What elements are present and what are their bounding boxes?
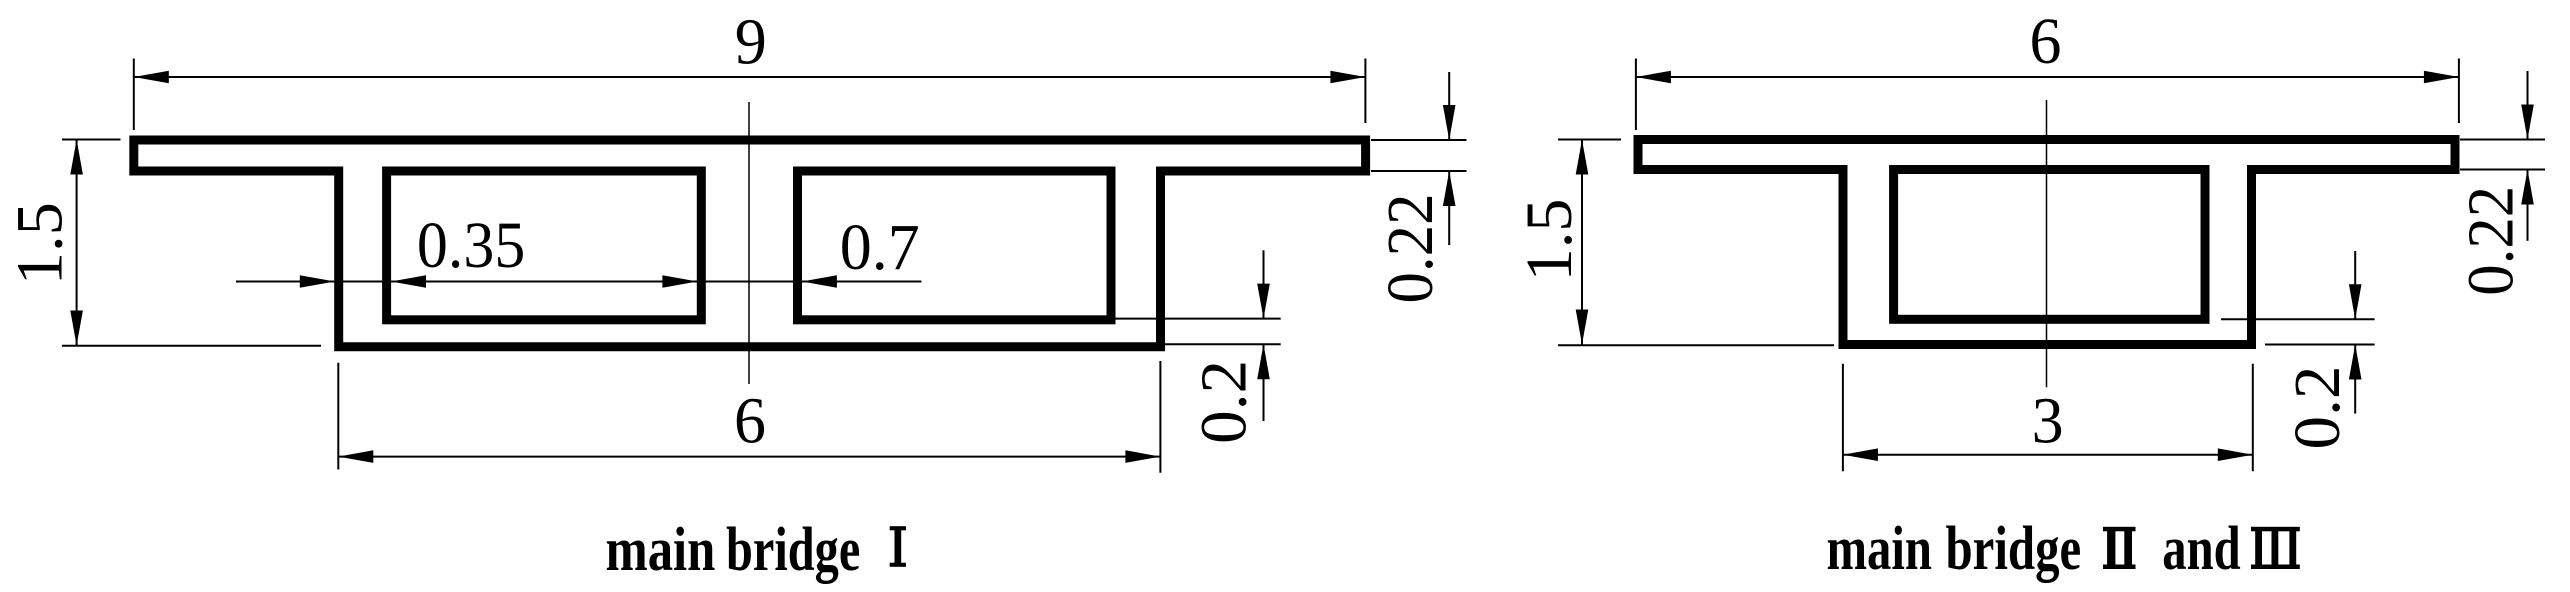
- svg-text:and: and: [2162, 515, 2240, 583]
- dim 1.5 line: [76, 140, 78, 346]
- svg-text:1.5: 1.5: [1513, 199, 1586, 282]
- roman numeral II: [2103, 527, 2136, 569]
- right cell: [1894, 170, 2205, 320]
- dim 0.35 / 0.7 arrows: [300, 275, 837, 288]
- dim 0.22 left vline lower: [1448, 171, 1450, 245]
- dim 1.5 right arrows: [1576, 140, 1589, 345]
- left cell 2: [798, 171, 1112, 320]
- svg-text:3: 3: [2032, 385, 2064, 458]
- dim 9 line: [134, 76, 1366, 78]
- dim 9 arrows: [134, 71, 1366, 84]
- svg-text:9: 9: [735, 6, 767, 79]
- dim 3 ext right: [2252, 364, 2254, 472]
- dim 6 ext left: [337, 363, 339, 470]
- svg-text:0.35: 0.35: [417, 209, 525, 282]
- svg-text:1.5: 1.5: [3, 202, 76, 285]
- dim 1.5 right line: [1581, 140, 1583, 345]
- dim 6 ext right: [1159, 361, 1161, 473]
- right section outline: [1638, 140, 2455, 345]
- dim 0.22 right arrows: [2521, 105, 2534, 205]
- dim 0.2 right arrows: [2349, 284, 2362, 379]
- dim 6 right ext right: [2458, 59, 2460, 124]
- left centerline: [748, 102, 750, 384]
- left cell 1: [387, 171, 702, 320]
- dim 0.2 right vlines: [2354, 251, 2356, 319]
- right centerline: [2046, 100, 2048, 387]
- roman numeral III: [2251, 527, 2300, 569]
- dim 9 ext left: [133, 59, 135, 131]
- svg-text:0.22: 0.22: [1374, 194, 1447, 304]
- svg-text:6: 6: [2030, 5, 2062, 78]
- dim 6 bottom line: [338, 456, 1160, 458]
- dim 3 line: [1843, 454, 2253, 456]
- dim 1.5 right ext top: [1558, 139, 1621, 141]
- dim 0.35 / 0.7 line: [236, 281, 921, 283]
- svg-text:bridge: bridge: [1946, 515, 2082, 583]
- dim 6 arrows: [338, 450, 1160, 463]
- dim 0.22 left vline upper: [1448, 72, 1450, 140]
- dim 1.5 arrows: [70, 140, 83, 346]
- svg-text:0.2: 0.2: [1188, 360, 1261, 444]
- dim 0.22 left exts: [1371, 139, 1467, 141]
- svg-text:6: 6: [734, 385, 766, 458]
- dim 0.2 right exts: [2221, 318, 2375, 320]
- dim 1.5 ext bottom: [62, 345, 321, 347]
- svg-text:main: main: [606, 516, 716, 584]
- dim 3 arrows: [1843, 448, 2253, 461]
- roman numeral I: [890, 526, 906, 567]
- svg-text:main: main: [1827, 515, 1933, 583]
- dim 6 right ext left: [1635, 59, 1637, 131]
- svg-text:bridge: bridge: [726, 516, 860, 584]
- dim 6 top line right: [1636, 76, 2459, 78]
- svg-text:0.2: 0.2: [2281, 366, 2354, 450]
- dim 9 ext right: [1364, 59, 1366, 124]
- dim 0.22 right exts: [2460, 139, 2545, 141]
- dim 0.2 left vlines: [1263, 250, 1265, 318]
- dim 0.2 left exts: [1115, 318, 1281, 320]
- dim 6 right arrows: [1636, 71, 2459, 84]
- dim 0.2 left arrows: [1257, 284, 1270, 380]
- svg-text:0.7: 0.7: [840, 211, 920, 284]
- dim 1.5 ext top: [62, 139, 121, 141]
- left section outline: [134, 140, 1366, 347]
- dim 3 ext left: [1842, 364, 1844, 472]
- svg-text:0.22: 0.22: [2455, 186, 2528, 296]
- dim 0.22 left arrows: [1443, 105, 1456, 206]
- dim 0.22 right vlines: [2527, 71, 2529, 140]
- dim 1.5 right ext bottom: [1558, 344, 1834, 346]
